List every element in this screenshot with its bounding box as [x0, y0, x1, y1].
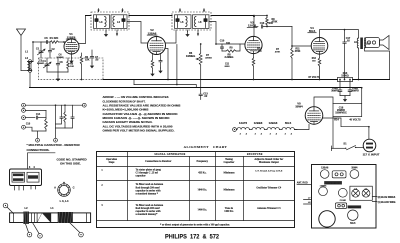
capacitor C12 label [186, 51, 195, 58]
svg-text:L5: L5 [181, 20, 185, 24]
svg-text:4: 4 [246, 132, 248, 135]
notes text block [103, 95, 181, 132]
T1 winding L3 box [94, 15, 110, 29]
oscillator tuning C4 [42, 58, 51, 72]
svg-text:I. F. Transf. L3-L4, L5-L6: I. F. Transf. L3-L4, L5-L6 [255, 170, 283, 173]
wire V4 plate to output transformer [320, 30, 359, 38]
svg-text:ALIGNMENT CHART: ALIGNMENT CHART [184, 145, 228, 149]
IF transformer T1 shield (dashed) [91, 12, 129, 30]
tube V3 12AT6 [245, 36, 262, 53]
svg-text:100: 100 [226, 42, 231, 45]
terminal bottom left [36, 138, 40, 142]
svg-text:C5: C5 [44, 36, 48, 40]
svg-text:L2: L2 [24, 206, 28, 210]
T1 adjust arrow left [97, 9, 99, 13]
gang dashed enclosure [39, 58, 104, 80]
component pack pins [15, 166, 36, 190]
labels heater tubes [239, 121, 292, 125]
wire V2 plate to T2 [165, 30, 176, 43]
label L1 rod [50, 206, 54, 210]
svg-text:.05: .05 [95, 59, 99, 62]
svg-text:capacitor: capacitor [136, 175, 147, 178]
wire V3 plate to coupling [253, 26, 258, 28]
svg-text:3: 3 [101, 204, 103, 207]
resistor R12 V4 cathode [312, 54, 321, 79]
chassis tube 12BA6 [320, 166, 329, 178]
svg-text:ON THIS SIDE.: ON THIS SIDE. [60, 162, 81, 166]
svg-text:12BA6: 12BA6 [269, 121, 278, 125]
wire B+ to R9 [254, 15, 267, 17]
resistor R2 screen [80, 53, 90, 80]
wire antenna to terminal [21, 70, 28, 72]
svg-text:a standard dummy*: a standard dummy* [136, 213, 159, 216]
svg-text:.02: .02 [346, 40, 350, 43]
svg-text:COND: COND [340, 200, 347, 202]
svg-text:117 V. INPUT: 117 V. INPUT [363, 152, 380, 156]
network bottom wires [32, 131, 46, 138]
svg-text:* MULTIPLE CAPACITOR - RESIST: * MULTIPLE CAPACITOR - RESISTOR [27, 143, 81, 147]
component pack section 1 [12, 172, 25, 182]
resistor R1 22K [50, 36, 59, 43]
T2 trimmer [176, 16, 180, 28]
label 117V INPUT [363, 152, 380, 156]
wire V1 plate riser [79, 16, 86, 44]
svg-text:Capacitor: Capacitor [224, 161, 236, 164]
terminal antenna A [28, 69, 32, 73]
network capacitor a [56, 105, 64, 124]
svg-text:Steps: Steps [109, 161, 115, 164]
wire V3 plate riser [253, 14, 255, 36]
chassis IF can 1 [332, 171, 346, 178]
svg-text:C: C [73, 186, 75, 190]
wire gang to bus [29, 72, 31, 87]
svg-text:2200Ω: 2200Ω [205, 58, 212, 60]
chassis label gang cond [348, 205, 362, 209]
table header frequency [197, 160, 209, 163]
heater string wire and coils [236, 124, 309, 129]
wire network top rail [25, 104, 82, 106]
node grid junction [32, 41, 34, 61]
svg-text:4: 4 [276, 132, 278, 135]
IF transformer T2 shield (dashed) [172, 12, 211, 30]
label V2 12BA6 [147, 28, 157, 35]
svg-text:S1: S1 [343, 142, 347, 146]
svg-text:R1 22K: R1 22K [50, 36, 59, 40]
chassis outline [312, 165, 377, 229]
table title ALIGNMENT CHART [184, 145, 228, 149]
T1 ground [104, 30, 108, 37]
svg-text:C10: C10 [220, 40, 225, 43]
chassis IF can 2 [335, 203, 346, 209]
svg-text:C6: C6 [59, 61, 63, 64]
svg-text:6000: 6000 [225, 66, 231, 68]
T1 secondary return arrow [116, 30, 118, 36]
speaker SP [365, 36, 390, 50]
label V3 12AT6 [247, 21, 257, 28]
wire AVC return [134, 80, 196, 88]
wire V5 plate to B+ [314, 97, 333, 107]
table header SIGNAL GENERATOR [154, 153, 185, 156]
svg-text:3: 3 [255, 133, 257, 135]
wire V2 screen to bus [165, 49, 169, 81]
T2 coil L5 [181, 17, 188, 27]
rod coil L1 band 2 [58, 212, 73, 223]
component pack section 2 [27, 172, 39, 182]
wire osc section bottom [47, 72, 68, 81]
capacitor C5 [41, 36, 50, 43]
table header adjust [254, 158, 284, 164]
svg-text:a standard dummy *: a standard dummy * [136, 193, 159, 196]
label V1 12BE6 [66, 32, 76, 39]
svg-text:CONNECTIONS.: CONNECTIONS. [27, 148, 50, 152]
svg-text:455 Kc.: 455 Kc. [198, 172, 207, 175]
resistor R4 cathode [150, 54, 154, 76]
svg-text:3: 3 [240, 133, 242, 135]
wire B-plus top bus [86, 15, 255, 17]
note code no stamped [57, 157, 88, 165]
svg-text:L4: L4 [117, 20, 121, 24]
svg-text:GANG COND.: GANG COND. [348, 206, 361, 209]
output transformer T3 [354, 38, 371, 50]
T2 trimmer right [204, 16, 208, 28]
svg-text:30MFD: 30MFD [331, 91, 339, 93]
table row 1 [101, 168, 283, 177]
svg-text:1640 Kc.: 1640 Kc. [198, 189, 208, 192]
network capacitor c [65, 105, 74, 128]
table footer [160, 223, 230, 226]
T1 coil L3 [100, 17, 107, 27]
label V5 35W4 [295, 102, 303, 109]
svg-text:L 3, L4: L 3, L4 [60, 199, 69, 203]
note multiple capacitor [27, 143, 81, 152]
svg-text:50L5: 50L5 [350, 223, 356, 225]
resistor R9 470K plate load [266, 15, 278, 27]
T1 winding L4 box [111, 15, 127, 29]
resistor R11 470K grid leak [291, 46, 301, 80]
svg-text:C3: C3 [365, 188, 367, 190]
svg-text:R3: R3 [70, 63, 74, 66]
chassis tube 12BE6 [319, 185, 328, 195]
ground filter caps [340, 96, 350, 102]
terminal 4 rod leader [3, 203, 13, 213]
wire T2 to V3 grid detector [209, 22, 245, 45]
chassis gang condenser [350, 186, 372, 200]
wire AVC to T2 secondary [176, 45, 178, 86]
svg-text:RECEIVER: RECEIVER [247, 153, 263, 156]
svg-text:22K: 22K [85, 59, 90, 62]
resistor R5 47K [222, 44, 240, 52]
capacitor C19B filter [348, 79, 359, 96]
svg-text:Maximum Output: Maximum Output [259, 161, 279, 164]
terminal 1 [22, 113, 46, 120]
svg-text:L3: L3 [100, 20, 104, 24]
svg-text:4: 4 [33, 166, 35, 169]
chassis wires L7 L8 [304, 198, 312, 205]
svg-text:R14: R14 [334, 119, 339, 122]
T2 winding L5 box [175, 15, 192, 29]
svg-text:Antenna Trimmer C3: Antenna Trimmer C3 [257, 207, 281, 210]
svg-text:SIGNAL GENERATOR: SIGNAL GENERATOR [154, 153, 185, 156]
pin numbers heater [240, 132, 293, 135]
switch S1 [332, 142, 364, 150]
svg-text:3: 3 [29, 166, 31, 169]
label C6 50MMF [57, 55, 65, 60]
svg-text:470: 470 [257, 50, 262, 53]
rod divider lines [32, 213, 35, 223]
svg-text:R5: R5 [229, 47, 233, 50]
antenna ANT [17, 29, 26, 71]
svg-text:470K: 470K [272, 21, 278, 24]
T2 ground [185, 30, 189, 37]
svg-text:Minimum: Minimum [224, 189, 236, 192]
svg-text:97 VOLTS: 97 VOLTS [308, 76, 320, 79]
wire coupling to V4 grid [291, 27, 311, 47]
label R7 [275, 49, 281, 54]
capacitor C7 [90, 50, 99, 68]
plug 117V input [363, 139, 376, 152]
svg-text:56MMF: 56MMF [37, 63, 45, 65]
table header tuning capacitor [224, 158, 236, 164]
svg-text:Frequency: Frequency [197, 160, 209, 163]
leader line code no [28, 153, 56, 169]
svg-text:12K: 12K [70, 66, 74, 68]
T1 coil L4 [113, 17, 121, 27]
table header operation steps [106, 158, 118, 164]
tube V1 12BE6 [64, 39, 79, 54]
capacitor C19A filter [331, 79, 342, 96]
capacitor C-cathode bypass [158, 54, 162, 73]
wire switch drop [332, 117, 334, 149]
svg-text:50MFD: 50MFD [351, 91, 359, 93]
label V4 50L5 [308, 26, 316, 33]
chassis labels blue wires [372, 197, 396, 205]
svg-text:Oscillator Trimmer C4: Oscillator Trimmer C4 [256, 187, 282, 190]
T2 adjust arrow left [179, 9, 181, 13]
wire V5 to switch drop [323, 118, 369, 127]
T2 return arrow [197, 30, 199, 36]
capacitor C10 100 [220, 40, 231, 52]
svg-text:L1: L1 [50, 206, 54, 210]
label L2 rod [24, 206, 28, 210]
table row 3 [101, 204, 281, 216]
wire to V1 grid [59, 41, 65, 43]
svg-text:OHMS PER VOLT METER NO SIGN: OHMS PER VOLT METER NO SIGNAL SUPPLIED. [103, 128, 175, 132]
label L3 L4 [60, 199, 69, 203]
wire T1 to V2 grid [127, 22, 148, 44]
label C3 56MMF [37, 61, 45, 66]
tuning capacitor C1 [36, 42, 46, 58]
svg-text:12BE6: 12BE6 [254, 121, 263, 125]
svg-text:1500Ω: 1500Ω [341, 75, 348, 78]
title PHILIPS 172 572 [165, 233, 219, 240]
volume control R6 [196, 43, 202, 88]
chassis tube 50L5 [348, 210, 358, 225]
label C11 6000 [225, 64, 231, 69]
svg-text:3: 3 [270, 133, 272, 135]
network mid vertical [55, 105, 57, 138]
rod coil L1 band 1 [37, 213, 51, 223]
chassis oscillator label [324, 181, 342, 185]
svg-text:PHILIPS 172 & 572: PHILIPS 172 & 572 [165, 233, 219, 240]
svg-text:Connections to Receiver: Connections to Receiver [145, 160, 172, 163]
svg-text:150: 150 [312, 61, 316, 63]
wire V1 cathode [69, 54, 73, 63]
chassis tube 35W4 [350, 166, 359, 178]
svg-text:C15: C15 [26, 124, 31, 126]
svg-text:4: 4 [261, 132, 263, 135]
terminal 7 [22, 109, 46, 113]
wire B+ bus 97 volts [81, 76, 390, 80]
wire plug to B- [368, 126, 370, 139]
tube V4 50L5 [311, 38, 328, 55]
svg-text:Minimum: Minimum [224, 172, 236, 175]
resistor network R vertical [45, 110, 48, 131]
svg-text:C16: C16 [260, 22, 265, 25]
label R8 AVC [225, 54, 234, 60]
svg-text:1: 1 [101, 169, 103, 172]
svg-text:35W4: 35W4 [295, 105, 303, 109]
svg-text:L2: L2 [25, 56, 29, 60]
table row 2 [101, 183, 282, 195]
label R14 [334, 119, 361, 122]
T2 coil L6 [194, 17, 202, 27]
terminal 6 [22, 124, 32, 131]
coil cross-section L3 L4 [54, 182, 75, 197]
rod coil L2 band [23, 212, 29, 224]
svg-text:1400 Kc.: 1400 Kc. [224, 210, 234, 213]
svg-text:4: 4 [291, 132, 293, 135]
label L2 [25, 56, 29, 60]
label R7 2200 [205, 55, 212, 60]
svg-text:1400 Kc.: 1400 Kc. [198, 209, 208, 212]
svg-text:3: 3 [285, 133, 287, 135]
trimmer C2 [48, 42, 55, 58]
wire C18 network [333, 87, 363, 117]
svg-text:OSCILLATOR: OSCILLATOR [327, 182, 340, 185]
wire terminal B to node [32, 61, 33, 63]
wire T3 primary to B+ [358, 48, 360, 80]
svg-text:.02: .02 [204, 95, 208, 98]
wire osc coil [28, 62, 34, 71]
T1 adjust arrow right [121, 9, 123, 13]
table header RECEIVER [247, 153, 263, 156]
svg-text:470K: 470K [275, 51, 281, 54]
rod leader bottom 1 [26, 224, 32, 237]
rod leader bottom 2 [33, 223, 43, 239]
oscillator padder C6 [56, 58, 63, 72]
antenna rod body [10, 213, 91, 223]
table grid [97, 152, 295, 228]
terminal bottom mid [54, 138, 58, 142]
label R3 value [70, 66, 74, 68]
capacitor C18 label [335, 107, 347, 115]
svg-text:L6: L6 [199, 20, 203, 24]
terminal antenna B [28, 60, 32, 64]
rod leader bottom 3 [70, 223, 83, 237]
table header connections [145, 160, 172, 163]
svg-text:C14: C14 [36, 113, 41, 116]
svg-text:470K: 470K [295, 50, 301, 53]
T1 trimmer C9 [122, 16, 126, 28]
oscillator coil L7 L8 [28, 62, 32, 71]
capacitor C13 .02 [199, 88, 208, 100]
wire speaker return [365, 48, 390, 80]
svg-text:C1: C1 [36, 47, 40, 51]
svg-text:(3) BLUE WIRES: (3) BLUE WIRES [378, 197, 396, 199]
svg-text:40 VOLTS: 40 VOLTS [349, 119, 361, 122]
svg-text:* or direct output of generat: * or direct output of generator in serie… [160, 223, 230, 226]
capacitor C17 .02 tone [343, 29, 351, 80]
svg-text:12BE6: 12BE6 [320, 185, 327, 187]
svg-text:L1: L1 [25, 50, 29, 54]
label L1 [25, 50, 29, 54]
svg-text:50L5: 50L5 [285, 121, 292, 125]
svg-text:A: A [54, 186, 56, 190]
switch lead bracket [331, 146, 333, 151]
resistor R10 V3 cathode [252, 48, 262, 80]
terminal 9 right [82, 103, 86, 107]
svg-text:C2: C2 [51, 48, 55, 51]
T2 adjust arrow right [203, 9, 205, 13]
resistor R3 osc grid [67, 58, 74, 72]
svg-text:50MMF: 50MMF [57, 57, 65, 59]
network resistor b [56, 105, 67, 128]
svg-text:1/2MEG: 1/2MEG [186, 54, 195, 58]
T2 winding L6 box [193, 15, 210, 29]
terminal heater string [233, 128, 237, 132]
chassis speaker circle [319, 211, 335, 227]
T1 trimmer C8 [95, 16, 99, 28]
tube V2 12BA6 [148, 37, 166, 55]
chassis label antenna rod [297, 181, 312, 184]
wire grid line [33, 41, 41, 43]
svg-text:2: 2 [101, 184, 103, 187]
component pack outline [10, 169, 42, 186]
svg-text:ANT. ROD: ANT. ROD [297, 181, 308, 184]
wire B- bus [30, 87, 362, 89]
svg-text:(1) BLACK WIRE: (1) BLACK WIRE [378, 201, 396, 204]
svg-text:3.3MEG: 3.3MEG [225, 56, 234, 59]
tube V5 35W4 rectifier [305, 107, 323, 125]
svg-text:12AT6: 12AT6 [239, 121, 248, 125]
svg-text:35W4: 35W4 [351, 166, 358, 169]
chassis tube cond [338, 188, 347, 201]
resistor R13 1500 filter [338, 72, 353, 82]
terminal 8 [22, 103, 26, 107]
svg-text:12BA6: 12BA6 [321, 166, 329, 169]
capacitor C16 coupling [260, 22, 292, 28]
svg-text:150WVDC: 150WVDC [335, 112, 347, 115]
